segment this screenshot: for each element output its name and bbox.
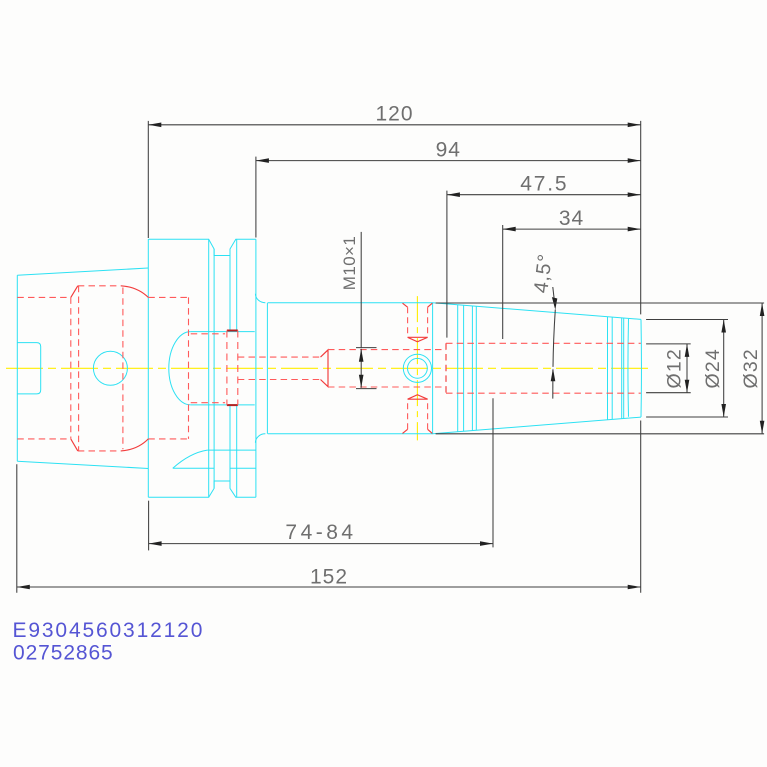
- body outline: [268, 303, 433, 434]
- shank face bore step: [17, 343, 40, 394]
- radial hole top red: [403, 303, 433, 342]
- dim 34: [503, 225, 641, 339]
- dim dia32: [436, 303, 764, 434]
- svg-text:Ø12: Ø12: [664, 348, 686, 388]
- svg-text:Ø32: Ø32: [740, 348, 762, 388]
- tool bore red dashed: [446, 343, 641, 393]
- svg-text:152: 152: [310, 565, 348, 588]
- tip rings: [608, 317, 629, 420]
- svg-text:120: 120: [375, 103, 413, 126]
- M10 thread red dashed: [328, 350, 446, 387]
- cone taper bottom: [433, 417, 641, 434]
- svg-text:47.5: 47.5: [520, 173, 568, 196]
- cavity red dashed lines at bullet: [191, 334, 225, 403]
- svg-text:94: 94: [436, 138, 461, 161]
- dim dia24: [646, 320, 728, 418]
- coupling rect red: [227, 331, 238, 406]
- HSK shank outline: [17, 268, 148, 469]
- centerline cross hole: [416, 296, 418, 440]
- flange outline: [148, 239, 256, 497]
- cone rings: [458, 305, 477, 432]
- dim 120: [148, 121, 640, 315]
- dim 152: [17, 421, 641, 593]
- svg-text:M10×1: M10×1: [340, 236, 359, 290]
- svg-text:02752865: 02752865: [13, 641, 114, 664]
- dim M10x1 leader: [356, 232, 377, 389]
- shank internal cavity red: [17, 286, 188, 451]
- dim 94: [256, 157, 641, 238]
- shank hole circle: [93, 351, 127, 385]
- cone taper top: [433, 303, 641, 320]
- centerline main axis: [6, 367, 649, 369]
- dim 74-84: [149, 398, 493, 550]
- drive slot bottom: [173, 450, 256, 468]
- neck edge vertical: [266, 303, 268, 434]
- flange groove verticals: [209, 239, 237, 497]
- svg-text:34: 34: [559, 207, 584, 230]
- bore step red: [445, 343, 447, 393]
- neck fillet top: [255, 294, 265, 303]
- cross hole circles: [403, 354, 431, 382]
- svg-text:74-84: 74-84: [285, 521, 356, 544]
- dim 47.5: [447, 191, 641, 338]
- neck fillet bottom: [255, 434, 265, 443]
- nose end face: [640, 319, 642, 417]
- dim 4.5 deg: [553, 287, 556, 399]
- svg-text:E9304560312120: E9304560312120: [13, 619, 205, 642]
- M10 plug face red: [321, 350, 329, 387]
- cavity corner arcs red solid: [71, 286, 149, 451]
- dim dia12: [646, 344, 691, 393]
- radial hole bottom red: [403, 395, 433, 434]
- cone face: [432, 303, 434, 434]
- svg-text:Ø24: Ø24: [702, 348, 724, 388]
- pilot bore red dashed: [238, 357, 321, 379]
- flange internal cavity bullet: [169, 332, 255, 405]
